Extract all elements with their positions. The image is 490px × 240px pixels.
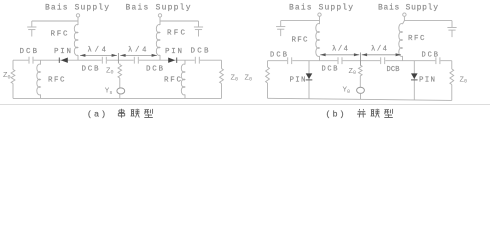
svg-text:Z0: Z0 bbox=[245, 75, 253, 83]
svg-text:PIN: PIN bbox=[54, 48, 71, 56]
svg-text:(b): (b) bbox=[326, 109, 345, 119]
svg-text:Z0: Z0 bbox=[106, 67, 114, 75]
svg-text:DCB: DCB bbox=[270, 51, 287, 59]
svg-text:DCB: DCB bbox=[146, 66, 163, 74]
svg-text:Bais Supply: Bais Supply bbox=[45, 4, 109, 13]
svg-text:PIN: PIN bbox=[290, 76, 306, 84]
svg-text:Z0: Z0 bbox=[3, 72, 11, 80]
svg-text:Bais Supply: Bais Supply bbox=[289, 4, 353, 13]
svg-text:DCB: DCB bbox=[422, 52, 439, 60]
svg-text:λ/4: λ/4 bbox=[88, 46, 107, 54]
svg-text:RFC: RFC bbox=[48, 77, 65, 85]
svg-text:RFC: RFC bbox=[51, 31, 68, 39]
svg-text:Bais Supply: Bais Supply bbox=[378, 4, 438, 13]
svg-text:Y0: Y0 bbox=[343, 87, 351, 95]
svg-text:RFC: RFC bbox=[164, 77, 181, 85]
svg-text:DCB: DCB bbox=[322, 65, 338, 73]
svg-text:λ/4: λ/4 bbox=[128, 46, 147, 54]
svg-text:Ys: Ys bbox=[105, 88, 113, 96]
svg-text:Z0: Z0 bbox=[349, 68, 357, 76]
svg-text:λ/4: λ/4 bbox=[371, 45, 387, 53]
svg-text:Bais Supply: Bais Supply bbox=[126, 4, 191, 13]
svg-text:(a): (a) bbox=[87, 109, 106, 119]
svg-text:RFC: RFC bbox=[167, 30, 185, 38]
svg-text:RFC: RFC bbox=[292, 36, 308, 44]
svg-text:DCB: DCB bbox=[387, 66, 400, 74]
svg-text:DCB: DCB bbox=[191, 48, 209, 56]
svg-text:PIN: PIN bbox=[419, 76, 435, 84]
svg-text:PIN: PIN bbox=[165, 48, 182, 56]
svg-text:DCB: DCB bbox=[20, 48, 38, 56]
svg-text:λ/4: λ/4 bbox=[332, 45, 348, 53]
svg-text:RFC: RFC bbox=[408, 35, 425, 43]
svg-text:DCB: DCB bbox=[82, 66, 99, 74]
svg-text:Z0: Z0 bbox=[460, 77, 468, 85]
svg-text:Z0: Z0 bbox=[231, 75, 239, 83]
